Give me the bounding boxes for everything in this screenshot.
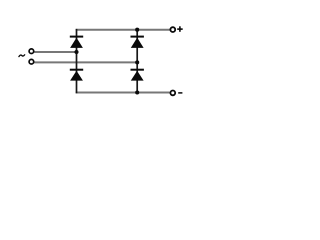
terminal: + output circle — [170, 27, 175, 32]
node: junction bottom rail / right column — [135, 90, 139, 94]
terminal: AC input 2 circle — [29, 59, 34, 64]
wire: left column vertical — [76, 29, 78, 93]
terminal: - output circle — [170, 91, 175, 96]
wire: top (+) rail from left column to + terminal — [76, 29, 170, 31]
wire: AC input line 2 from terminal to right column (crosses left column, no junction) — [34, 61, 138, 63]
wire: AC input line 1 from terminal to left column — [34, 51, 77, 53]
diode D2 (left bottom) — [70, 69, 83, 81]
diode D4 (right bottom) — [131, 69, 144, 81]
node: junction AC2 / right column — [135, 60, 139, 64]
label: + sign — [177, 26, 183, 32]
wire: bottom (-) rail from left column to - terminal — [76, 92, 170, 94]
node: junction top rail / right column — [135, 28, 139, 32]
label: ~ (AC) symbol — [19, 55, 25, 57]
terminal: AC input 1 circle — [29, 49, 34, 54]
diode D1 (left top) — [70, 36, 83, 48]
diode D3 (right top) — [131, 36, 144, 48]
label: - sign — [178, 92, 182, 94]
wire: right column vertical — [136, 29, 138, 93]
node: junction AC1 / left column — [74, 50, 78, 54]
